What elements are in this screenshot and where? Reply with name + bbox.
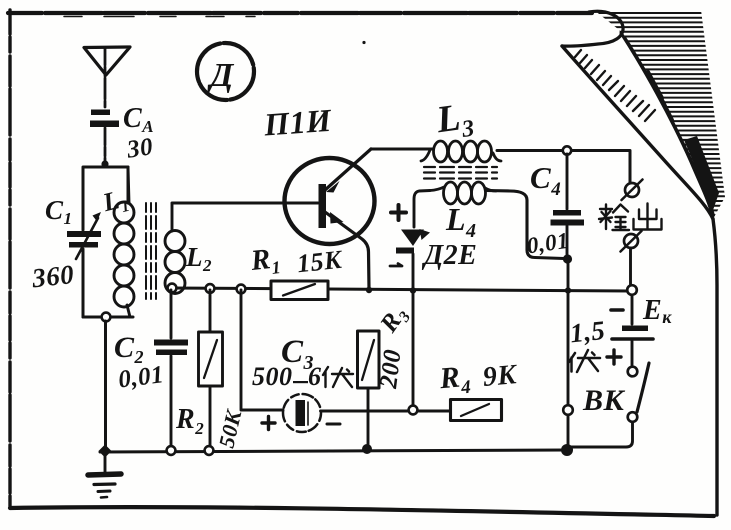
node R2 bottom xyxy=(205,446,214,455)
svg-text:R2: R2 xyxy=(175,404,204,438)
svg-text:30: 30 xyxy=(124,133,154,163)
page curl roll xyxy=(562,11,623,46)
node diode-rail crossing xyxy=(410,287,416,293)
transistor V1 xyxy=(285,149,375,288)
wire battery bottom xyxy=(631,341,634,366)
frame borders (decorative) xyxy=(8,11,592,15)
svg-text:C1: C1 xyxy=(45,195,73,228)
svg-text:L3: L3 xyxy=(433,95,476,147)
node R3 bottom xyxy=(362,444,372,454)
node antenna tap xyxy=(101,160,108,167)
node R4 right xyxy=(563,405,573,415)
node R2 top tap xyxy=(206,284,215,293)
resistor R3 xyxy=(358,331,380,448)
inductor L4 xyxy=(430,182,496,204)
svg-text:1,5: 1,5 xyxy=(569,315,607,349)
capacitor C1 (variable) xyxy=(67,212,101,259)
label R2 50K xyxy=(175,404,247,450)
svg-text:C2: C2 xyxy=(114,331,144,367)
svg-text:L4: L4 xyxy=(445,201,477,242)
polarity + (detector) xyxy=(391,205,406,220)
node C4 top xyxy=(563,146,571,154)
wire L4 right xyxy=(486,191,564,259)
value 伏 (battery) xyxy=(569,350,600,372)
svg-text:15K: 15K xyxy=(296,245,345,279)
diode D1 Д2Е xyxy=(396,229,430,407)
node collector-rail crossing xyxy=(366,287,372,293)
label C3 500 6伏 xyxy=(252,334,322,391)
label R3 200 xyxy=(375,301,415,391)
wire tank bottom xyxy=(83,316,133,319)
wire bottom rail xyxy=(100,450,567,452)
svg-text:Д: Д xyxy=(207,57,235,94)
svg-text:Eк: Eк xyxy=(642,295,672,327)
label 输出 xyxy=(599,204,662,231)
wire antenna lead xyxy=(104,48,107,161)
svg-text:0,01: 0,01 xyxy=(525,228,570,259)
label C2 0.01 xyxy=(114,331,166,394)
wire C1 lower xyxy=(82,249,85,317)
node ground tap (diamond) xyxy=(99,445,112,458)
polarity - (battery) xyxy=(611,308,623,312)
node R4 left xyxy=(409,406,418,415)
roll shading strokes xyxy=(575,50,655,121)
svg-text:200: 200 xyxy=(375,348,407,391)
figure marker Д (circled) xyxy=(197,43,254,100)
switch SA1 ВК xyxy=(570,363,649,447)
svg-text:50K: 50K xyxy=(214,407,247,451)
antenna W1 xyxy=(84,47,130,75)
svg-text:CA: CA xyxy=(123,103,154,136)
wire L4 left to diode xyxy=(414,191,430,228)
resistor R1 xyxy=(271,281,328,300)
svg-text:9K: 9K xyxy=(482,359,520,393)
node C4 bottom xyxy=(563,254,572,263)
svg-text:C4: C4 xyxy=(530,160,561,200)
svg-text:R3: R3 xyxy=(375,301,415,340)
capacitor C2 xyxy=(154,290,188,449)
svg-text:П1И: П1И xyxy=(262,102,333,143)
polarity + (battery) xyxy=(607,350,621,364)
wire tank top xyxy=(83,167,128,230)
wire output lower drop xyxy=(629,248,632,286)
svg-text:R4: R4 xyxy=(437,360,472,401)
node C3 tap xyxy=(237,285,246,294)
output terminal upper xyxy=(622,180,643,201)
inductor L3 xyxy=(421,141,501,162)
wire ground drop xyxy=(104,321,107,449)
wire C3 branch xyxy=(241,290,451,411)
capacitor CA xyxy=(90,110,119,128)
wire battery top xyxy=(631,295,634,324)
inductor L1 xyxy=(114,167,134,317)
capacitor C3 (electrolytic) xyxy=(283,394,321,432)
page curl left edge xyxy=(562,46,713,219)
label R1 15K xyxy=(248,242,344,280)
wire C4 bottom drop xyxy=(567,259,570,446)
node output/battery junction xyxy=(627,285,637,295)
svg-text:ВК: ВК xyxy=(582,384,626,417)
node bottom-rail right (big) xyxy=(561,444,573,456)
label R4 9K xyxy=(437,359,519,400)
polarity - (detector) xyxy=(390,264,402,267)
inductor L2 xyxy=(165,204,185,294)
svg-text:R1: R1 xyxy=(248,242,282,280)
wire emitter rail xyxy=(371,148,433,151)
polarity + of C3 xyxy=(262,417,275,430)
svg-text:6: 6 xyxy=(308,362,322,391)
value CA 30 xyxy=(123,103,155,164)
battery GB1 xyxy=(612,326,653,340)
output terminal lower xyxy=(621,231,642,252)
resistor R4 xyxy=(451,400,502,421)
svg-text:L2: L2 xyxy=(185,242,212,275)
value 伏 (C3 voltage) xyxy=(323,367,353,387)
node L2 bottom xyxy=(168,284,177,293)
page curl right edge xyxy=(621,33,713,219)
svg-text:500: 500 xyxy=(252,362,293,391)
svg-text:360: 360 xyxy=(30,259,76,293)
polarity - of C3 xyxy=(327,423,340,426)
node rail crossing at 568 xyxy=(565,287,571,293)
wire base xyxy=(172,202,318,205)
node C2 bottom xyxy=(167,446,176,455)
svg-text:0,01: 0,01 xyxy=(117,361,166,393)
transformer core L1-L2 xyxy=(146,203,156,299)
transformer core L3-L4 xyxy=(424,167,497,179)
ground xyxy=(88,453,121,498)
label C4 0.01 xyxy=(525,160,570,258)
svg-text:Д2Е: Д2Е xyxy=(421,240,477,271)
capacitor C4 xyxy=(551,154,585,255)
wire bias rail xyxy=(172,288,631,291)
node tank bottom xyxy=(102,313,111,322)
resistor R2 xyxy=(199,290,223,449)
wire top rail right xyxy=(497,151,630,184)
